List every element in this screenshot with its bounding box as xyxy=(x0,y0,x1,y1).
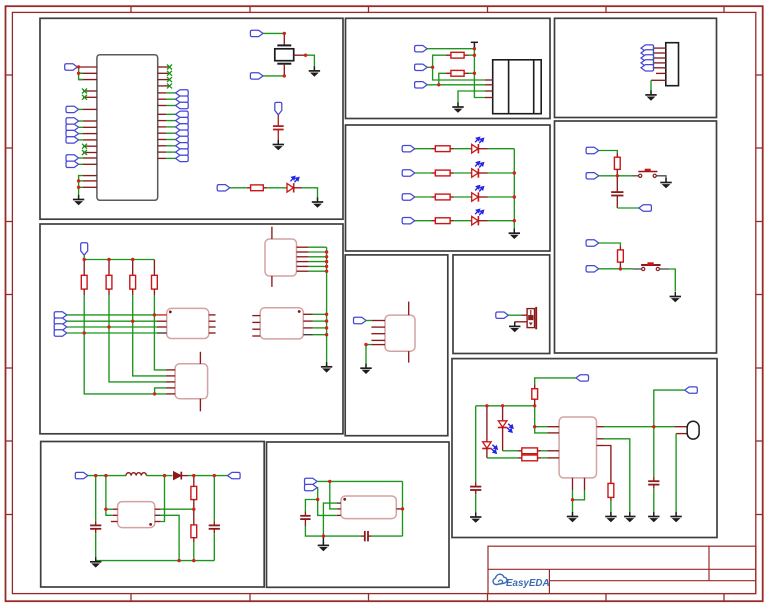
ground symbol C8 xyxy=(648,512,659,522)
wire R2 down to IC U3 pins4-5 xyxy=(84,333,166,394)
top horizontal rail box K xyxy=(476,405,535,407)
LED D3 cathode lead xyxy=(478,148,488,150)
net flag stack on MCU right pins 5-7 xyxy=(166,92,176,94)
LED D3 xyxy=(472,137,484,153)
junction U7 right pin xyxy=(401,507,404,510)
wire inductor to diode xyxy=(146,475,172,477)
resistor R2 top lead xyxy=(83,260,85,276)
ground stem box D xyxy=(322,536,324,545)
resistor R6 top lead xyxy=(193,476,195,487)
wire buzzer pin2 to ground xyxy=(514,322,516,326)
connector CN1 body xyxy=(493,60,542,114)
ground symbol LED array xyxy=(509,229,520,239)
wire flag E2 up to R8 xyxy=(433,55,446,67)
junction IC U4 pin on ground bus xyxy=(325,260,328,263)
capacitor C4 xyxy=(300,516,310,519)
button S1 xyxy=(632,169,657,178)
wire top rail down to U7 pin2 xyxy=(330,481,337,509)
inductor L1 xyxy=(126,473,146,476)
junction R13 button node xyxy=(616,174,619,177)
capacitor C7 top lead xyxy=(475,482,477,486)
IC U8 bottom pin xyxy=(408,351,410,362)
IC U3 bottom pin xyxy=(199,399,201,412)
wire flag to R1 xyxy=(230,187,247,189)
resistor R3 bottom lead xyxy=(108,289,110,295)
wire LED D8 to R16 xyxy=(503,450,518,452)
capacitor C6 bottom lead xyxy=(616,196,618,209)
LED D3 anode lead xyxy=(470,148,471,150)
wires IC U5 right pins to ground bus xyxy=(313,313,327,315)
wire C3 to gnd rail xyxy=(213,533,215,560)
regulator U6 left pins xyxy=(111,509,118,521)
wire C8 to ground xyxy=(653,489,655,516)
ground symbol box G xyxy=(360,364,371,374)
amplifier U9 left pins xyxy=(548,427,560,458)
module box F (LED array) xyxy=(346,125,551,251)
IC U4 body xyxy=(265,239,297,276)
wire R13 to LED D6 xyxy=(454,220,471,222)
net flag LED4 xyxy=(402,194,415,200)
wire rail to C2 xyxy=(95,476,97,522)
junction rail R3 xyxy=(107,258,110,261)
capacitor C6 xyxy=(611,192,623,195)
wire flag to button S2 xyxy=(599,268,633,270)
IC U7 right pin xyxy=(396,508,402,510)
wire R2 to bus row 4 xyxy=(83,295,85,333)
connector CN1 pins xyxy=(485,80,493,98)
sheet border row ticks sides xyxy=(6,75,763,515)
capacitor C7 bottom lead xyxy=(475,490,477,494)
IC U8 top pin xyxy=(408,302,410,316)
bus wire row 1 xyxy=(67,314,157,316)
wire flag to U8 xyxy=(366,320,372,322)
net flag E2 xyxy=(415,64,428,70)
net flag stack on MCU right pins 8-15 xyxy=(166,113,176,115)
wire LED D5 to common xyxy=(488,196,514,198)
resistor R7 bottom lead xyxy=(193,538,195,542)
wire C7 to ground xyxy=(475,494,477,516)
wire button S1 to ground xyxy=(656,176,666,182)
IC U5 body xyxy=(260,308,303,339)
junction IC U5 pin on ground bus xyxy=(325,326,328,329)
LED D6 anode lead xyxy=(470,220,471,222)
capacitor C3 bottom lead xyxy=(213,529,215,533)
resistor R11 leads xyxy=(432,172,436,174)
resistor R17 leads xyxy=(518,457,522,459)
junction IC U4 pin on ground bus xyxy=(325,255,328,258)
resistor R3 top lead xyxy=(108,260,110,276)
module box C (power supply) xyxy=(41,442,265,588)
resistor R2 xyxy=(81,275,87,289)
net flag LED control xyxy=(217,185,230,191)
capacitor C1 top lead xyxy=(277,115,279,126)
bus wire row 3 xyxy=(67,326,157,328)
IC U8 body xyxy=(385,315,415,351)
junction LED row4 xyxy=(513,219,516,222)
branch wire to IC U3 pin4 xyxy=(155,388,166,394)
LED D6 xyxy=(472,209,484,225)
module box E (card connector) xyxy=(346,18,551,118)
wire flag E3 to CN1 pin2 xyxy=(427,84,485,86)
IC U3 left pins xyxy=(166,370,175,394)
net flag E3 xyxy=(415,82,428,88)
junction top rail xyxy=(328,480,331,483)
wire R9 branch xyxy=(439,73,446,85)
junction R6 tap xyxy=(192,474,195,477)
junction crystal top xyxy=(283,32,286,35)
wire CN1 pin3 to ground xyxy=(458,91,485,106)
net flag VCC (vertical) xyxy=(275,102,282,114)
net flag VOUT xyxy=(228,472,241,478)
net flag stack on MCU left pins 7-10 xyxy=(66,118,79,124)
junction R14 button node xyxy=(619,267,622,270)
net flag buzzer xyxy=(496,312,509,318)
wire flag to CN2 pin xyxy=(652,67,655,69)
junction IC U4 pin on ground bus xyxy=(325,265,328,268)
resistor R17 xyxy=(522,455,538,461)
wire C4 to bottom rail xyxy=(305,526,361,536)
LED D5 anode lead xyxy=(470,196,471,198)
wire flag to button S1 xyxy=(599,175,632,177)
wire flag to CN2 pin xyxy=(652,62,655,64)
diode D2 xyxy=(174,472,182,480)
IC U2 left pins xyxy=(157,315,167,333)
junction R9 bus xyxy=(473,72,476,75)
wire R5 down to IC U3 pin1 xyxy=(154,315,166,370)
switch node vertical wire xyxy=(161,476,165,522)
LED D1 xyxy=(287,177,299,193)
connector CN2 pins xyxy=(651,48,666,80)
net flag pull-up rail (vertical) xyxy=(81,243,88,255)
junction flag E2 node xyxy=(431,66,434,69)
LED D5 cathode lead xyxy=(478,196,488,198)
resistor R12 leads xyxy=(432,196,436,198)
regulator U6 right pins xyxy=(155,509,161,521)
EasyEDA logo xyxy=(493,574,549,589)
speaker LS1 pin2 lead xyxy=(676,433,687,435)
LED D7 cathode lead xyxy=(486,449,488,458)
junction R7 on gnd rail xyxy=(192,559,195,562)
junction IC U4 pin on ground bus xyxy=(325,270,328,273)
junction C2 tap xyxy=(94,474,97,477)
resistor R14 xyxy=(618,250,624,262)
net flag LED2 xyxy=(402,146,415,152)
no-connect X on MCU left pin 11 xyxy=(82,144,87,149)
junction U6 VIN tap xyxy=(104,474,107,477)
wire CN2 gnd pin xyxy=(650,80,652,94)
junction R8 bus xyxy=(473,54,476,57)
IC U5 left pins xyxy=(252,316,260,336)
capacitor C3 xyxy=(209,525,220,528)
ground symbol button S2 xyxy=(670,292,681,302)
no-connect X on MCU left pin 12 xyxy=(82,150,87,155)
capacitor C1 bottom lead xyxy=(277,130,279,144)
wire rail down to C7 xyxy=(475,406,477,482)
wire R17 to U9 xyxy=(541,457,547,459)
LED D4 xyxy=(472,162,484,178)
wire R4 to bus row 2 xyxy=(132,295,134,321)
IC U7 left pins xyxy=(337,503,341,515)
resistor R3 xyxy=(106,275,112,289)
junction MCU gnd pin 17 xyxy=(77,186,80,189)
wire flag to crystal bottom xyxy=(263,75,284,77)
junction U6 pin1 xyxy=(104,508,107,511)
resistor R6 xyxy=(191,486,197,499)
LED D6 cathode lead xyxy=(478,220,488,222)
wire flag to R15 xyxy=(535,378,576,385)
module box J (buttons) xyxy=(555,121,717,353)
capacitor C4 bottom lead xyxy=(304,519,306,526)
junction R5 bus row1 xyxy=(153,313,156,316)
vertical bus wire box E xyxy=(474,49,485,98)
wire R11 to LED D4 xyxy=(454,172,471,174)
ground symbol U9 xyxy=(567,512,578,522)
net flag audio VCC xyxy=(305,478,318,484)
crystal X1 xyxy=(275,45,294,63)
LED D8 top lead xyxy=(502,406,504,421)
wires IC U4 right pins to ground bus xyxy=(309,246,327,248)
resistor R4 xyxy=(130,275,136,289)
junction U8 gnd pin xyxy=(364,343,367,346)
net flag stack data bus (4 flags) xyxy=(54,312,67,318)
junction MCU gnd pin 16 xyxy=(77,179,80,182)
capacitor C6 top lead xyxy=(616,176,618,192)
wire tying MCU pins 1-3 xyxy=(77,66,78,68)
ground symbol below C1 xyxy=(273,140,284,150)
resistor R15 bottom lead xyxy=(534,399,536,406)
net flag button1 pull-up xyxy=(586,147,599,153)
buzzer BZ1 pin2 lead xyxy=(515,321,527,323)
MCU U1 body xyxy=(97,55,158,201)
junction IC U4 pin on ground bus xyxy=(325,250,328,253)
resistor R6 bottom lead xyxy=(193,500,195,525)
wire U6 VIN branch xyxy=(106,476,113,516)
wire R8 to bus xyxy=(469,54,475,56)
crystal X1 bottom lead xyxy=(283,64,285,76)
title block frame xyxy=(488,546,756,593)
bus wire row 4 xyxy=(67,332,157,334)
capacitor C7 xyxy=(470,487,481,490)
resistor R9 xyxy=(451,70,464,76)
IC U3 body xyxy=(175,364,208,399)
no-connect X marks on MCU right pins 1-4 xyxy=(167,65,172,70)
wire node to U7 pin3 xyxy=(318,500,337,516)
ground wire for MCU pins 15-17 xyxy=(79,176,83,199)
stub to U6 pin1 xyxy=(106,508,113,510)
net flag XTAL1 xyxy=(250,30,263,36)
amplifier U9 right pins xyxy=(597,427,604,446)
wire R18 to ground xyxy=(610,501,612,516)
net flag button2 input xyxy=(586,266,599,272)
wire LED D7 to R17 xyxy=(487,457,518,459)
junction signal node xyxy=(316,498,319,501)
IC U5 right pins xyxy=(303,314,313,334)
ground symbol pin2 xyxy=(624,512,635,522)
wire crystal case to ground xyxy=(306,55,315,70)
junction feedback divider xyxy=(192,508,195,511)
junction speaker node xyxy=(652,425,655,428)
wire flag E1 to node xyxy=(427,48,474,50)
wire flag to R14 xyxy=(599,243,621,246)
module box H (buzzer) xyxy=(453,255,550,354)
capacitor C8 xyxy=(648,481,659,484)
resistor R14 bottom lead xyxy=(619,262,621,269)
wire flag to CN2 pin xyxy=(652,47,655,49)
wire R10 to LED D3 xyxy=(454,148,471,150)
amplifier U9 body xyxy=(559,417,596,478)
LED D1 cathode lead xyxy=(293,187,302,189)
junction rail R4 xyxy=(131,258,134,261)
net flag E1 xyxy=(415,46,428,52)
MCU U1 left pin stubs xyxy=(79,67,97,187)
button S2 xyxy=(633,262,661,270)
svg-text:EasyEDA: EasyEDA xyxy=(506,578,550,589)
junction IC U5 pin on ground bus xyxy=(325,333,328,336)
resistor R13 xyxy=(435,218,450,224)
ground symbol for LED D1 xyxy=(312,197,323,207)
series capacitor C5 right lead xyxy=(368,535,372,537)
LED D7 xyxy=(482,442,497,453)
resistor R13 leads xyxy=(432,220,436,222)
junction on MCU pin2 xyxy=(77,72,80,75)
resistor R4 top lead xyxy=(132,260,134,276)
resistor R5 bottom lead xyxy=(153,289,155,295)
LED D1 anode lead xyxy=(286,187,287,189)
feedback wire U6 to divider xyxy=(161,508,194,510)
MCU U1 right pin stubs xyxy=(158,67,170,158)
junction node top xyxy=(473,47,476,50)
resistor R16 xyxy=(522,448,538,454)
wire R5 to bus row 1 xyxy=(153,295,155,315)
wire R16 to U9 xyxy=(541,450,547,452)
sheet border column ticks top xyxy=(131,6,724,601)
resistor R1 leads xyxy=(247,187,251,189)
junction LED row3 xyxy=(513,195,516,198)
wire LED D1 to ground xyxy=(302,188,317,201)
IC U2 body xyxy=(167,308,209,338)
resistor R7 xyxy=(191,525,197,538)
capacitor C2 xyxy=(90,525,101,528)
wire U9 output to speaker xyxy=(604,426,675,428)
ground symbol box E xyxy=(452,102,463,112)
module box G (sensor IC) xyxy=(345,255,448,436)
net flag speaker ref xyxy=(685,387,698,393)
ground symbol button S1 xyxy=(660,178,671,188)
resistor R2 bottom lead xyxy=(83,289,85,295)
LED common vertical wire xyxy=(513,149,515,233)
wire R4 down to IC U3 pin2 xyxy=(133,321,166,376)
resistor R13 top lead xyxy=(616,154,618,158)
IC U7 body xyxy=(341,496,396,519)
wire rail to C3 xyxy=(213,476,215,522)
wire U9 pin to ground 2 xyxy=(604,439,630,516)
wire LED D4 to common xyxy=(488,172,514,174)
junction on MCU pin1 xyxy=(77,65,80,68)
IC U3 top pin xyxy=(199,352,201,364)
junction R2 bus row4 xyxy=(83,331,86,334)
ground symbol for ground bus xyxy=(326,365,328,367)
resistor R13 xyxy=(614,157,620,169)
ground symbol below MCU xyxy=(73,195,84,205)
resistor R18 bottom lead xyxy=(610,497,612,501)
series capacitor C5 left lead xyxy=(361,535,365,537)
wire U9 bottom pins to ground xyxy=(573,490,585,499)
junction IC U5 pin on ground bus xyxy=(325,319,328,322)
wire R7 to gnd rail xyxy=(193,542,195,561)
resistor R13 bottom lead xyxy=(616,169,618,175)
LED D4 anode lead xyxy=(470,172,471,174)
wire flag to crystal top xyxy=(263,32,284,34)
wire LED D6 to common xyxy=(488,220,514,222)
resistor R18 xyxy=(608,483,614,497)
LED D4 cathode lead xyxy=(478,172,488,174)
wire flag to C8 xyxy=(654,390,685,477)
capacitor C3 top lead xyxy=(213,521,215,525)
resistor R11 xyxy=(435,170,450,176)
wire flag to CN2 pin xyxy=(652,52,655,54)
junction LED D7 tap xyxy=(485,404,488,407)
net flag LED3 xyxy=(402,170,415,176)
junction LED row2 xyxy=(513,171,516,174)
connector CN2 body xyxy=(666,43,679,86)
resistor R16 leads xyxy=(518,450,522,452)
module box B (driver ICs) xyxy=(40,224,343,434)
junction crystal case xyxy=(304,54,307,57)
wire node to C4 xyxy=(305,500,317,512)
wire button S2 to ground xyxy=(659,268,669,270)
junction R15 node xyxy=(533,404,536,407)
ground symbol box H xyxy=(509,322,520,332)
junction U9 pin1 xyxy=(533,425,536,428)
wire R1 to LED D1 xyxy=(267,187,286,189)
wire R9 to bus xyxy=(469,72,475,74)
LED D8 xyxy=(498,421,513,432)
junction rail R2 xyxy=(83,258,86,261)
bus wire row 2 xyxy=(67,320,157,322)
U9 pin to R18 lead xyxy=(604,446,611,484)
junction crystal bottom xyxy=(283,74,286,77)
net flag pair on MCU left pins 13-14 xyxy=(66,155,79,161)
resistor R8 leads xyxy=(446,54,451,56)
junction C3 tap xyxy=(213,474,216,477)
resistor R5 top lead xyxy=(153,260,155,276)
ground symbol for crystal xyxy=(309,66,320,76)
stub to U9 pin1 xyxy=(535,426,548,428)
wire flag E2 xyxy=(427,66,432,68)
IC U4 top pin xyxy=(271,227,273,239)
wire C6 to flag xyxy=(617,207,639,209)
wire flag to R13 xyxy=(599,151,618,154)
module box I (header) xyxy=(555,18,717,117)
junction R4 bus row2 xyxy=(131,320,134,323)
no-connect X on MCU left pin 5 xyxy=(82,95,87,100)
no-connect X on MCU left pin 4 xyxy=(82,89,87,94)
net flag on MCU left pin 6 xyxy=(66,106,79,112)
wire flag to R12 xyxy=(415,196,432,198)
diode D2 cathode lead xyxy=(181,475,188,477)
junction LED D8 tap xyxy=(501,404,504,407)
ground symbol box D xyxy=(318,541,329,551)
input rail wire xyxy=(88,475,126,477)
module box D (audio codec) xyxy=(267,442,450,587)
net flag stack header (5 flags) xyxy=(641,45,654,51)
net flag audio signal xyxy=(305,484,318,490)
junction IC U3 pin4 branch xyxy=(153,392,156,395)
wire flag to R10 xyxy=(415,148,432,150)
top rail wire to U7 xyxy=(317,480,402,482)
IC U8 left pins xyxy=(371,321,385,345)
wire flag to CN2 pin xyxy=(652,57,655,59)
